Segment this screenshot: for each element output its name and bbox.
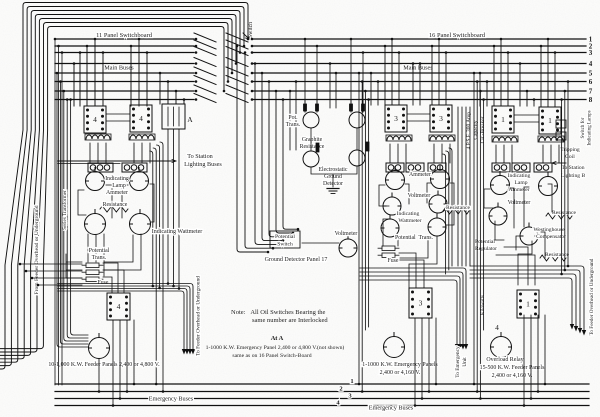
wire loop feeder section right 3 — [561, 100, 563, 275]
resistance element (panel 3) — [443, 208, 469, 214]
voltmeter (panel 1) — [489, 203, 507, 225]
wire bus tap (feeder panels) — [486, 82, 488, 107]
series transformer coil (left panel 1) — [86, 135, 110, 139]
ground detector lamp left — [303, 151, 319, 167]
svg-text:6: 6 — [589, 78, 593, 86]
oil switch panel box 4 (feeder panel) — [107, 293, 130, 320]
indicating lamp group (panel 3 mid) — [406, 163, 424, 172]
node 16-panel switchboard buses — [252, 38, 586, 40]
wire circuit breaker column 3 — [465, 107, 467, 266]
wire wattmeter to potential fuse (left) — [88, 234, 141, 276]
svg-text:Resistance: Resistance — [446, 205, 470, 211]
wire coil to lamp panel (panel 1) — [495, 145, 497, 163]
wire circuit breaker column 2 — [461, 107, 463, 266]
oil switch panel box 4 (11-panel board, right) — [130, 105, 152, 132]
svg-text:Fuse: Fuse — [388, 258, 399, 264]
indicating lamp group (panel 1 left) — [492, 163, 510, 172]
wire compensator network — [495, 221, 545, 285]
svg-text:Resistance: Resistance — [103, 202, 128, 208]
switch blade row 5a — [194, 67, 216, 76]
wire bus tap (feeder panels) — [554, 53, 556, 107]
integrating wattmeter element (left 1) — [85, 210, 106, 235]
indicating lamp group (panel 3 right) — [428, 163, 446, 172]
wire loop left section right side 1 — [160, 142, 163, 392]
wire bus tap (feeder panels) — [526, 91, 528, 106]
switch blade row 1b — [226, 33, 248, 42]
wire center bundle 2 — [245, 53, 273, 249]
indicating lamp group (left panel 2) — [122, 163, 147, 172]
svg-text:Resistance: Resistance — [300, 144, 325, 150]
switch blade row 2a — [194, 40, 216, 49]
wire circuit breaker column 1 — [457, 107, 459, 266]
svg-text:8: 8 — [589, 96, 593, 104]
svg-text:Kilowatts: Kilowatts — [480, 295, 486, 315]
svg-text:11 Panel Switchboard: 11 Panel Switchboard — [96, 32, 153, 39]
wire bus tap (16-panel section) — [398, 53, 400, 106]
svg-text:Main Buses: Main Buses — [104, 65, 134, 72]
svg-text:Potential: Potential — [89, 248, 110, 254]
wire loop left section left side 3 — [64, 91, 88, 341]
wire loop 16-panel section left 1 — [358, 73, 360, 384]
wire coil to lamp panel (panel 1) — [550, 145, 552, 163]
svg-text:same number are Interlocked: same number are Interlocked — [252, 317, 328, 324]
svg-text:Trans.: Trans. — [286, 122, 301, 128]
svg-text:3: 3 — [419, 299, 423, 308]
fuse box (panel 3 b) — [378, 253, 399, 258]
svg-text:Pot.: Pot. — [288, 115, 298, 121]
indicating lamp ammeter meter (left 1) — [86, 168, 105, 191]
voltmeter (panel 3 left) — [383, 193, 401, 215]
wire feeder border line 7 from left edge to switch drop — [0, 27, 224, 349]
wire bus drop (ground detector) — [329, 64, 331, 109]
node 11-panel switchboard buses — [55, 38, 194, 40]
wire coil to lamp panel (panel 3) — [449, 144, 451, 163]
wire loop left section right side 4 — [150, 151, 153, 286]
oil switch panel box 3 (16-panel, right) — [430, 105, 452, 132]
indicating wattmeter meter (panel 3 right) — [428, 214, 446, 236]
wire coil to lamp panel (panel 1) — [503, 145, 505, 163]
svg-text:To Feeder Overhead or Undergro: To Feeder Overhead or Underground — [589, 258, 595, 335]
wire feeder panel to emergency bus — [112, 320, 114, 406]
svg-text:Regulator: Regulator — [475, 246, 497, 252]
svg-text:3: 3 — [394, 114, 398, 123]
wire bus drop (ground detector) — [335, 73, 337, 108]
wire feeder panel 1 to bus — [530, 315, 532, 399]
svg-text:Emergency Buses: Emergency Buses — [369, 405, 414, 412]
oil switch panel box 3 (emergency panel) — [409, 288, 432, 318]
svg-text:1: 1 — [501, 115, 505, 124]
wire bus tap — [130, 46, 132, 106]
resistance element (panel 1 upper) — [546, 213, 572, 219]
wire meters interconnect (panel 1) — [484, 184, 552, 228]
wire fuses to feeder panel box — [103, 263, 124, 293]
graphite resistance element left — [316, 143, 319, 152]
feeder exit arrow (right) — [570, 324, 574, 330]
svg-text:Indicating Wattmeter: Indicating Wattmeter — [152, 229, 203, 235]
wire bus drop (ground detector) — [304, 39, 306, 112]
oil switch panel box 4 (11-panel board, left) — [84, 106, 106, 133]
wire coil to lamp panel (panel 1) — [511, 145, 513, 163]
wire bus tap — [167, 82, 169, 105]
wire voltmeter to fuses (panel 3) — [383, 219, 437, 288]
wire feeder panel 1 to bus — [537, 315, 539, 392]
svg-text:Switch: Switch — [248, 22, 254, 38]
svg-text:7: 7 — [589, 88, 593, 96]
scan paper tone — [0, 0, 1, 1]
indicating lamp group (panel 1 right) — [534, 163, 552, 172]
wire between panel 1 boxes a — [514, 114, 539, 116]
wire loop feeder section left 2 — [476, 82, 478, 392]
voltmeter (ground detector panel) — [339, 235, 357, 257]
wire loop feeder section left 4 — [483, 100, 485, 331]
wire coil to lamp panel (panel 1) — [542, 145, 544, 163]
svg-text:3: 3 — [439, 114, 443, 123]
wire bus tap — [159, 73, 161, 104]
wire bus tap — [73, 64, 75, 107]
series transformer coil (panel 3 left) — [387, 136, 411, 140]
indicating lamp group (panel 1 mid) — [512, 163, 530, 172]
wire feeder meter to bus — [98, 359, 100, 392]
svg-text:1: 1 — [548, 116, 552, 125]
svg-text:Wattmeter: Wattmeter — [398, 218, 421, 224]
svg-text:A: A — [187, 115, 193, 124]
tripping coil box upper — [556, 120, 566, 128]
wire bus tap (16-panel section) — [370, 73, 372, 105]
wire potential transformer lead — [304, 100, 306, 113]
wire feeder border line 5 from left edge to switch drop — [0, 19, 232, 356]
oil switch panel box 1 (16-panel, left) — [492, 106, 514, 133]
svg-text:Voltmeter: Voltmeter — [335, 231, 358, 237]
wire bus tap (feeder panels) — [507, 53, 509, 107]
wire loop left section right side 3 — [153, 148, 156, 384]
wire bus tap — [86, 46, 88, 106]
wire bus tap (feeder panels) — [540, 46, 542, 106]
svg-text:1: 1 — [526, 300, 530, 309]
svg-text:16 Panel Switchboard: 16 Panel Switchboard — [429, 32, 486, 39]
svg-text:Cir.-Breaker: Cir.-Breaker — [480, 116, 486, 143]
wire coil to lamp panel (panel 3) — [397, 144, 399, 163]
svg-text:To Station: To Station — [187, 153, 213, 160]
potential transformer (center left) — [303, 112, 319, 128]
wire bus tap (16-panel section) — [445, 53, 447, 106]
overload relay meter — [491, 333, 512, 358]
wire potential transformer lead — [350, 100, 352, 113]
svg-text:1-1000 K.W. Emergency Panels: 1-1000 K.W. Emergency Panels — [362, 362, 438, 368]
svg-text:1-1000 K.W. Emergency Panel 2,: 1-1000 K.W. Emergency Panel 2,400 or 4,8… — [206, 344, 345, 351]
svg-text:Potential: Potential — [475, 239, 495, 245]
wire coil to lamp panel (panel 3) — [405, 144, 407, 163]
svg-text:same as on 16 Panel Switch-Boa: same as on 16 Panel Switch-Board — [232, 353, 311, 359]
wire between panel boxes a — [106, 113, 130, 115]
svg-text:Lamp: Lamp — [112, 183, 126, 189]
svg-text:Indicating: Indicating — [397, 211, 420, 217]
wire bus tap (feeder panels) — [533, 100, 535, 107]
wire feeder border line 6 from left edge to switch drop — [0, 23, 228, 353]
wire left bus down-feed — [61, 53, 63, 386]
svg-text:Graphite: Graphite — [302, 137, 323, 143]
indicating lamp ammeter meter (left 2) — [130, 168, 149, 191]
wire left bus down-feed — [54, 39, 56, 385]
wire emergency panel to bus — [421, 318, 423, 399]
wire feeder panel to emergency bus — [126, 320, 128, 392]
wire fuses to emergency panel box — [399, 253, 424, 288]
wire bus drop (ground detector) — [289, 91, 291, 150]
wire loop left section left side 1 — [57, 73, 88, 347]
wire coil to lamp panel — [89, 143, 91, 163]
wire bus tap — [79, 53, 81, 107]
series transformer coil (panel 1 right) — [539, 137, 563, 141]
switch blade row 8a — [194, 94, 216, 103]
svg-text:Switch for: Switch for — [581, 117, 586, 138]
svg-text:4 P.S.F. 300 Amp.: 4 P.S.F. 300 Amp. — [466, 111, 472, 150]
potential transformer fuse box (left b) — [82, 270, 103, 275]
wire feeder border line 4 from left edge to switch drop — [0, 15, 236, 359]
indicating lamp ammeter (panel 1 right) — [539, 173, 558, 196]
series transformer coil (panel 1 left) — [493, 137, 517, 141]
wire loop feeder section right 1 — [567, 82, 569, 267]
wire emergency panel to bus — [414, 318, 416, 406]
wire bus tap — [146, 53, 148, 107]
graphite resistance element right — [366, 142, 369, 151]
feeder exit arrow (right) — [574, 326, 578, 332]
switch blade row 7b — [226, 85, 248, 94]
indicating wattmeter meter (panel 3 left) — [381, 215, 399, 237]
oil switch panel box 3 (16-panel, left) — [385, 105, 407, 132]
wire bus tap (feeder panels) — [493, 46, 495, 106]
resistance element (left) — [100, 206, 128, 212]
wire bus tap — [138, 39, 140, 106]
wire bus tap — [94, 39, 96, 106]
svg-text:Indicating: Indicating — [105, 176, 129, 182]
switch blade row 2b — [226, 40, 248, 49]
voltmeter (panel 3 right) — [429, 191, 447, 213]
wire loop left section left side 4 — [67, 100, 88, 339]
svg-text:To Feeder Overhead or Undergro: To Feeder Overhead or Underground — [196, 276, 202, 356]
tripping coil box lower — [556, 132, 566, 140]
wire bus tap — [175, 91, 177, 104]
wire coil to lamp panel — [141, 143, 143, 163]
westinghouse compensator element — [520, 223, 538, 245]
wire bus tap (16-panel section) — [377, 82, 379, 106]
oil switch panel box 1 (feeder panel) — [517, 290, 539, 318]
svg-text:Note: All Oil Switches Beari: Note: All Oil Switches Bearing the — [231, 309, 326, 316]
switch blade row 4a — [194, 58, 216, 67]
wire center bundle 1 — [237, 46, 268, 252]
wire bus tap (16-panel section) — [419, 64, 421, 106]
potential transformer fuse box (left a) — [82, 263, 103, 268]
wire loop feeder section right 2 — [564, 91, 566, 270]
wire loop 16-panel section left 3 — [364, 91, 366, 330]
wire bus tap (feeder panels) — [547, 39, 549, 106]
svg-text:At A: At A — [271, 335, 284, 342]
wire left bus down-feed — [58, 46, 60, 385]
svg-text:Unit: Unit — [462, 357, 468, 367]
wire emergency panel to bus — [428, 318, 430, 392]
indicating lamp group (left panel 1) — [88, 163, 113, 172]
wire coil to lamp panel — [105, 143, 107, 163]
feeder exit arrow (left) — [185, 349, 189, 355]
wire bus tap (feeder panels) — [479, 73, 481, 106]
wire loop 16-panel section right 3 — [443, 154, 446, 274]
svg-text:Resistance: Resistance — [552, 210, 576, 216]
oil switch panel box 1 (16-panel, right) — [539, 107, 561, 134]
arrow to switch bank — [243, 33, 249, 39]
svg-text:Voltmeter: Voltmeter — [408, 193, 431, 199]
wire loop feeder section left 1 — [473, 73, 475, 384]
wire bus tap — [102, 53, 104, 107]
svg-text:Emergency Buses: Emergency Buses — [149, 396, 194, 403]
wire box A to lighting bus a — [167, 129, 169, 284]
svg-text:Coil: Coil — [565, 154, 575, 160]
emergency unit exit arrow — [455, 344, 459, 350]
wire coil to lamp panel (panel 1) — [558, 145, 560, 163]
svg-text:Fuse: Fuse — [98, 280, 109, 286]
box A bus section switch — [162, 104, 185, 129]
wire meters interconnect (left) — [78, 184, 154, 222]
svg-text:Overload Relay: Overload Relay — [486, 357, 523, 363]
wire regulator to feeder panel box — [496, 247, 535, 285]
svg-text:Lamp: Lamp — [514, 180, 527, 186]
wire pot trans to detector — [310, 128, 312, 151]
wire potential switch to voltmeter — [302, 242, 339, 244]
svg-text:Resistance: Resistance — [545, 252, 569, 258]
node emergency buses — [55, 383, 589, 385]
wire coil to lamp panel (panel 3) — [389, 144, 391, 163]
feeder exit arrow (left) — [188, 349, 192, 355]
wire box A to lighting bus c — [178, 129, 180, 289]
wire bus tap (16-panel section) — [384, 46, 386, 105]
wire coil to lamp panel (panel 3) — [433, 144, 435, 163]
wire bus tap — [183, 100, 185, 105]
wire bus tap (feeder panels) — [500, 39, 502, 106]
svg-text:Indicating Lamps: Indicating Lamps — [588, 110, 593, 145]
ground symbol — [327, 188, 339, 190]
fuse box (left c) — [82, 277, 103, 282]
ammeter (panel 3 left) — [386, 167, 405, 190]
wire between panel boxes b — [106, 120, 130, 122]
svg-text:Voltmeter: Voltmeter — [508, 200, 531, 206]
wire feeder border line 2 from left edge to switch drop — [0, 7, 244, 366]
svg-text:Main Buses: Main Buses — [403, 65, 433, 72]
wire bus drop (ground detector) — [316, 46, 318, 112]
wire bundle emergency panels to emergency unit — [360, 268, 466, 344]
wire circuit breaker column 4 — [469, 107, 471, 266]
wire center bundle 3 — [255, 64, 278, 245]
wire between panel 3 boxes b — [407, 120, 430, 122]
wire loop feeder section left 3 — [479, 91, 481, 399]
wire coil to lamp panel — [149, 143, 151, 163]
wire bus drop (ground detector) — [350, 39, 352, 112]
svg-text:Westinghouse: Westinghouse — [533, 227, 565, 233]
wire to station lighting B — [552, 162, 566, 164]
switch blade row 8b — [226, 94, 248, 103]
wire loop 16-panel section left 4 — [368, 100, 370, 328]
wire feeder panel 1 to bus — [544, 315, 546, 384]
resistance element (panel 1 lower) — [540, 255, 566, 261]
switch blade row 4b — [226, 58, 248, 67]
wire bus tap (16-panel section) — [438, 39, 440, 105]
wire center bundle 6 — [276, 91, 293, 233]
svg-text:10-1,000 K.W. Feeder Panels 2,: 10-1,000 K.W. Feeder Panels 2,400 or 4,8… — [48, 362, 160, 368]
wire detector to ground — [311, 166, 357, 187]
ammeter (panel 3 right) — [431, 166, 450, 189]
wire coil to lamp panel (panel 3) — [441, 144, 443, 163]
svg-text:Indicating: Indicating — [508, 173, 531, 179]
wire center bundle 4 — [262, 73, 283, 241]
svg-text:4: 4 — [589, 60, 593, 68]
wire loop 16-panel section right 1 — [449, 148, 452, 266]
wire emergency panel to bus — [435, 318, 437, 384]
wire between panel 3 boxes a — [407, 113, 430, 115]
indicating lamp group (panel 3 left) — [386, 163, 404, 172]
svg-text:Tripping: Tripping — [560, 147, 580, 153]
svg-text:Ground Detector Panel 17: Ground Detector Panel 17 — [265, 257, 328, 263]
svg-text:4: 4 — [495, 323, 499, 332]
svg-text:1: 1 — [350, 378, 353, 385]
wire center bundle 5 — [269, 82, 288, 237]
svg-text:2,400 or 4,160 V.: 2,400 or 4,160 V. — [492, 373, 533, 379]
wire bus tap (16-panel section) — [412, 64, 414, 106]
svg-text:Ammeter: Ammeter — [409, 172, 431, 178]
wire coil to lamp panel — [97, 143, 99, 163]
svg-text:Potential: Potential — [275, 234, 295, 240]
fuse box (panel 3 a) — [378, 246, 399, 251]
wire coil to lamp panel — [133, 143, 135, 163]
feeder exit arrow (right) — [582, 330, 586, 336]
wire loop left section left side 2 — [60, 82, 88, 345]
switch blade row 1a — [194, 33, 216, 42]
wire fuse feeders (left) — [66, 254, 82, 278]
svg-text:3: 3 — [589, 49, 593, 57]
svg-text:5: 5 — [589, 70, 593, 78]
wire to station lighting buses — [58, 160, 176, 162]
switch blade row 3b — [226, 47, 248, 56]
svg-text:Trans.: Trans. — [92, 255, 107, 261]
potential switch box — [270, 231, 300, 248]
wire bus tap (16-panel section) — [391, 39, 393, 105]
wire bundle left section to feeder exit — [58, 284, 193, 350]
feeder exit arrow (left) — [182, 349, 186, 355]
emergency unit exit arrow — [461, 344, 465, 350]
svg-text:15-500 K.W. Feeder Panels: 15-500 K.W. Feeder Panels — [480, 365, 545, 371]
wire bus drop (ground detector) — [295, 82, 297, 151]
svg-text:To Emergency: To Emergency — [455, 346, 461, 378]
emergency panel meter — [384, 333, 405, 358]
ground detector lamp right — [349, 150, 365, 166]
emergency unit exit arrow — [464, 344, 468, 350]
svg-text:Switch: Switch — [277, 242, 293, 248]
wire bus tap (16-panel section) — [431, 46, 433, 105]
wire feeder border line 1 from left edge to switch drop — [0, 3, 248, 370]
wire loop left section right side 2 — [157, 145, 160, 288]
switch blade row 6a — [194, 76, 216, 85]
switch blade row 5b — [226, 67, 248, 76]
svg-text:From Feeder Overhead or Underg: From Feeder Overhead or Underground — [34, 205, 40, 294]
feeder exit arrow (right) — [578, 328, 582, 334]
wire loop 16-panel section right 2 — [446, 151, 449, 270]
switch blade row 7a — [194, 85, 216, 94]
switch blade row 6b — [226, 76, 248, 85]
svg-text:4: 4 — [117, 302, 121, 311]
indicating lamp ammeter (panel 1 left) — [491, 172, 510, 195]
svg-text:Electrostatic: Electrostatic — [319, 167, 348, 173]
integrating wattmeter element (left 2) — [130, 210, 151, 235]
emergency unit exit arrow — [458, 344, 462, 350]
svg-text:Potential Trans.: Potential Trans. — [395, 235, 434, 241]
wire box A to lighting bus b — [173, 129, 175, 286]
wire feeder panel 1 to bus — [523, 315, 525, 406]
series transformer coil (panel 3 right) — [430, 136, 454, 140]
